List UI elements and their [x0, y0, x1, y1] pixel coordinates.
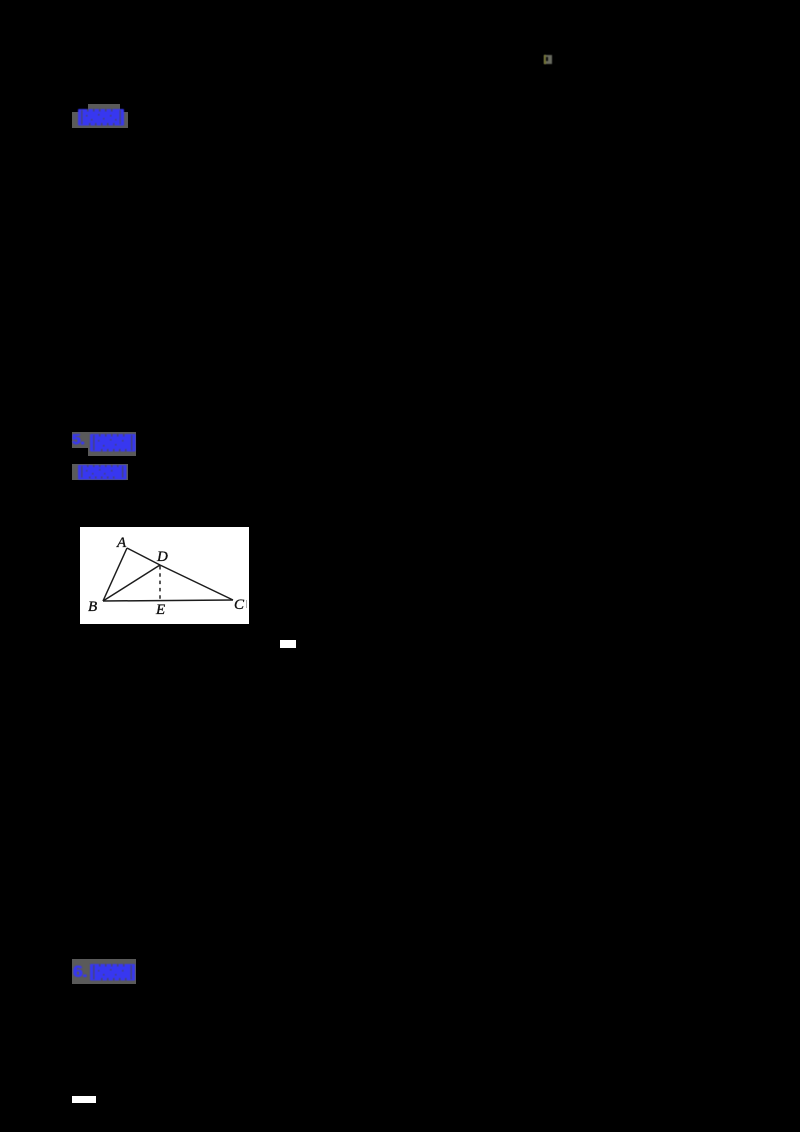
svg-text:A: A: [116, 535, 127, 551]
dashed DE: [159, 566, 161, 601]
bottom white rect: [72, 1096, 96, 1103]
highlight block 5: gray boxes: [72, 432, 88, 448]
line BC: [103, 600, 233, 601]
highlight block 6: gray box: [72, 959, 136, 984]
geometry figure: white panel: [80, 527, 249, 624]
tiny toolbar icon top right: [544, 55, 552, 64]
block 6 blue blob: [90, 964, 136, 981]
analysis line blue blob: [78, 465, 127, 480]
block 5 blue blob: [90, 434, 136, 452]
line BA: [103, 548, 127, 601]
line AD: [127, 548, 160, 565]
line BD: [103, 565, 160, 601]
faint cursor line right of C: [246, 600, 248, 608]
small white rect under figure: [280, 640, 296, 648]
"6," blue: [73, 962, 91, 982]
"5." blue: [72, 432, 88, 448]
svg-text:B: B: [88, 599, 97, 615]
highlight block 1: blue glyph blob: [78, 109, 125, 126]
line DC: [160, 565, 233, 600]
highlight block 1: selection gray boxes: [88, 104, 120, 112]
svg-text:E: E: [155, 602, 165, 618]
svg-text:C: C: [234, 597, 245, 613]
svg-text:D: D: [156, 549, 168, 565]
highlight block analysis line: gray box: [72, 464, 128, 480]
